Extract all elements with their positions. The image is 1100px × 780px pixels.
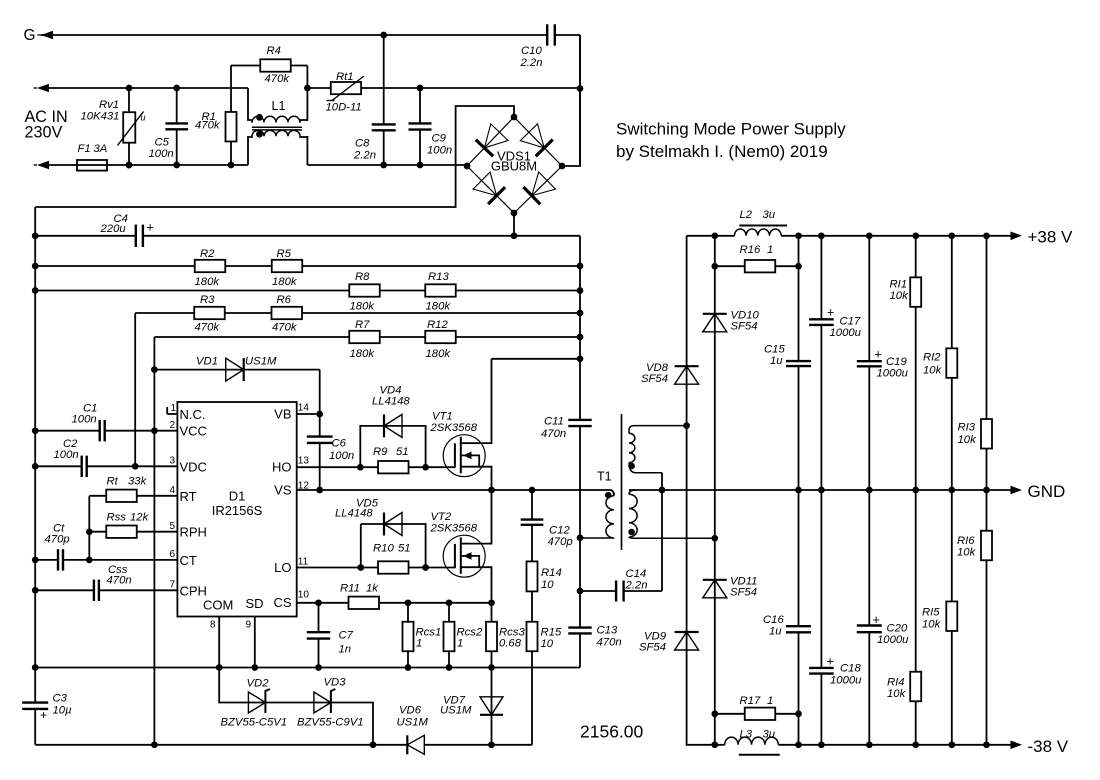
wire VCC line [35,430,100,432]
wire -38 rail [715,744,725,746]
svg-text:1k: 1k [366,583,379,595]
wire VS-GND line [320,489,610,491]
T1 secondary upper [629,426,687,434]
svg-text:Rv1: Rv1 [99,99,119,111]
svg-text:C5: C5 [155,137,170,149]
resistor RI5 [946,601,957,631]
capacitor C12 wire [531,490,533,562]
svg-text:1u: 1u [770,355,783,367]
svg-text:C20: C20 [887,623,908,635]
node COM pin9 [251,664,258,671]
svg-text:RI5: RI5 [922,607,940,619]
svg-text:51: 51 [398,543,411,555]
node Rv1 bottom [126,162,133,169]
svg-text:470n: 470n [107,575,132,587]
svg-text:5: 5 [170,521,176,532]
svg-text:10k: 10k [957,547,977,559]
diode VD11 SF54 [703,580,727,598]
svg-text:C14: C14 [626,568,647,580]
node CS C7 [315,599,322,606]
svg-text:US1M: US1M [397,717,429,729]
node C8 top [380,32,387,39]
node R16 left [711,263,718,270]
svg-text:R17: R17 [740,695,761,707]
svg-text:R14: R14 [541,567,562,579]
svg-text:VT1: VT1 [432,411,453,423]
node left rail VDC [32,463,39,470]
T1 primary winding [606,496,614,538]
diode VD6 US1M [407,735,424,754]
svg-text:8: 8 [210,620,216,631]
node left rail C4 [32,232,39,239]
phase dot L1 bottom [256,131,263,138]
diode VD8 SF54 [675,366,699,384]
svg-text:10µ: 10µ [53,705,73,717]
svg-text:470p: 470p [548,536,573,548]
wire COM line [35,667,580,669]
node GND rail [983,487,990,494]
svg-text:LL4148: LL4148 [335,508,373,520]
svg-text:470n: 470n [597,637,622,649]
capacitor C3 [22,701,48,703]
wire R14-R15 [531,591,533,621]
svg-text:SF54: SF54 [639,642,666,654]
resistor RI3 [981,419,992,449]
wire VT1 drain line [492,358,581,360]
capacitor C13 [568,626,591,628]
diode VD4 LL4148 [384,414,402,437]
wire RI2-RI5 column [951,236,953,745]
svg-text:2.2n: 2.2n [625,580,648,592]
svg-text:SF54: SF54 [731,321,758,333]
svg-text:33k: 33k [128,476,148,488]
wire bridge bottom [513,213,515,236]
svg-text:10k: 10k [887,688,907,700]
node COM Rcs2 [446,664,453,671]
node +38 rail [866,232,873,239]
node VS C6 [316,487,323,494]
svg-text:C11: C11 [544,416,564,428]
svg-text:GBU8M: GBU8M [491,159,537,174]
terminal arrow GND [1011,486,1023,495]
svg-text:3A: 3A [94,143,108,155]
svg-text:12: 12 [298,481,310,492]
resistor Rcs1 [407,603,409,668]
svg-text:R10: R10 [373,543,394,555]
node left rail VCC [32,427,39,434]
svg-text:2SK3568: 2SK3568 [430,422,478,434]
svg-text:11: 11 [298,557,309,568]
wire C14 line [580,590,616,592]
node left rail CT [32,557,39,564]
capacitor C10 [546,24,548,45]
svg-text:1: 1 [767,695,773,707]
node bridge left [464,163,471,170]
svg-text:C17: C17 [840,316,861,328]
svg-text:220u: 220u [100,223,127,235]
svg-text:VD3: VD3 [324,677,347,689]
svg-text:G: G [24,27,36,44]
svg-text:R12: R12 [427,319,448,331]
node -38 rail [983,741,990,748]
capacitor C1 [98,420,100,441]
svg-text:3u: 3u [763,209,776,221]
resistor R3 [194,307,225,319]
varistor Rv1 [128,88,130,112]
svg-text:0.68: 0.68 [499,638,522,650]
node VCC junction [151,427,158,434]
wire RT line [89,495,177,497]
svg-text:51: 51 [396,446,409,458]
node left rail R2 line [32,263,39,270]
svg-text:R5: R5 [277,248,292,260]
svg-text:1: 1 [416,638,422,650]
svg-text:VDC: VDC [180,459,207,474]
svg-text:180k: 180k [350,348,376,360]
resistor R7 [349,331,380,343]
wire VD7 vertical [491,668,493,745]
bridge diode top-right [520,124,544,148]
svg-text:RT: RT [180,489,197,504]
wire CPH line [35,589,94,591]
svg-text:2: 2 [170,420,176,431]
svg-text:470k: 470k [265,73,291,85]
capacitor C16 [786,625,811,627]
resistor R17 [715,713,745,715]
inductor L2 [734,229,781,236]
node R17 right [795,710,802,717]
transistor VT1 2SK3568 [443,435,485,477]
diode VD5 LL4148 [384,513,402,536]
svg-text:1000u: 1000u [877,368,909,380]
svg-text:BZV55-C5V1: BZV55-C5V1 [221,717,288,729]
svg-text:SF54: SF54 [641,373,668,385]
svg-text:IR2156S: IR2156S [212,503,263,518]
wire R8 line [35,290,580,292]
node COM Rcs1 [405,664,412,671]
wire VD4 loop [360,426,425,467]
node C4 bridge [511,232,518,239]
bridge diode bottom-left [473,172,497,196]
node VDC junction [132,463,139,470]
node bus C14 [577,588,584,595]
svg-text:VT2: VT2 [431,511,452,523]
svg-text:1: 1 [171,403,177,414]
node R10 right [422,564,429,571]
svg-text:10D-11: 10D-11 [326,102,362,114]
node C8 bottom [380,162,387,169]
core L1 [252,126,302,128]
node bus R7 [577,334,584,341]
svg-text:R11: R11 [340,583,360,595]
node bus R2 [577,263,584,270]
wire R3 line [135,312,580,314]
svg-text:R16: R16 [740,244,761,256]
node -38 rail [948,741,955,748]
svg-text:Rt: Rt [107,476,119,488]
svg-text:VD1: VD1 [196,356,218,368]
svg-text:LO: LO [274,560,291,575]
svg-text:2.2n: 2.2n [520,57,543,69]
svg-text:1000u: 1000u [830,327,862,339]
svg-text:+: + [827,306,834,320]
node R9 right [422,464,429,471]
svg-text:Rt1: Rt1 [336,71,354,83]
svg-text:10: 10 [298,590,310,601]
capacitor C8 [383,35,385,124]
diode VD7 US1M [480,697,503,715]
pin 9 SD [254,617,256,668]
node GND rail [912,487,919,494]
svg-text:+: + [873,613,880,627]
wire VD8-VD9 line [687,236,715,745]
wire +38 rail [687,235,735,237]
svg-text:GND: GND [1028,482,1066,501]
node bottom rail VCC vert [151,741,158,748]
node bridge top [511,114,518,121]
node CS VT2 [488,599,495,606]
terminal arrow +38V [1011,232,1023,241]
svg-text:N.C.: N.C. [180,407,206,422]
svg-text:13: 13 [298,456,310,467]
svg-text:2SK3568: 2SK3568 [430,523,478,535]
capacitor C9 [419,88,421,123]
svg-text:10k: 10k [890,290,910,302]
svg-text:100n: 100n [329,450,354,462]
wire RI3-RI6 column [986,236,988,745]
node C9 bottom [417,162,424,169]
svg-text:u: u [141,113,146,123]
wire VD2 line [219,668,373,745]
svg-text:100n: 100n [427,145,452,157]
svg-text:470k: 470k [195,120,221,132]
pin 10 CS [297,602,319,604]
svg-text:VB: VB [274,406,291,421]
diode VD10 SF54 [703,314,727,332]
node VD8 sec top [683,422,690,429]
wire lower AC line [49,164,77,166]
svg-text:D1: D1 [229,489,246,504]
resistor R4 [231,65,260,67]
wire R4 left drop [230,66,232,112]
node VB junction [316,411,323,418]
svg-text:C16: C16 [763,614,784,626]
node +38 rail [948,232,955,239]
svg-text:7: 7 [170,580,176,591]
wire GND line right [629,489,1012,491]
resistor R9 [378,461,409,473]
node bus R8 [577,287,584,294]
resistor R5 [272,260,303,272]
svg-text:R9: R9 [373,446,388,458]
node COM pin8 [216,664,223,671]
svg-text:C12: C12 [549,525,570,537]
svg-text:-38 V: -38 V [1028,737,1069,756]
terminal arrow AC lower [37,161,49,170]
node bus VT1 drain [577,355,584,362]
svg-text:C6: C6 [332,438,347,450]
node GND rail [948,487,955,494]
node Rv1 top [126,85,133,92]
node -38 rail [912,741,919,748]
svg-text:4: 4 [170,485,176,496]
node -38 rail [795,741,802,748]
capacitor Css [93,580,95,601]
svg-text:100n: 100n [54,449,79,461]
svg-text:C9: C9 [432,133,447,145]
svg-text:Rss: Rss [107,512,127,524]
svg-text:C8: C8 [355,138,370,150]
phase dot T1 sec lower [628,529,635,536]
svg-text:10k: 10k [922,619,942,631]
node CT junction [86,557,93,564]
svg-text:1n: 1n [339,644,352,656]
node GND rail [818,487,825,494]
wire bridge right to AC [562,35,580,166]
node bottom rail VD3 [370,741,377,748]
resistor Rt [106,490,137,502]
pin 12 VS [297,489,320,491]
wire RI1-RI4 column [915,236,917,745]
pin 8 COM [218,617,220,668]
svg-text:RI4: RI4 [887,677,905,689]
svg-text:180k: 180k [426,301,452,313]
svg-text:VD6: VD6 [399,705,422,717]
svg-text:CT: CT [180,553,197,568]
node COM Rcs3 [488,664,495,671]
capacitor C15 [786,360,811,362]
node GND rail [795,487,802,494]
svg-text:RI6: RI6 [957,535,975,547]
pin 11 LO [297,567,361,569]
svg-text:+: + [40,708,47,722]
svg-text:10K431: 10K431 [81,111,120,123]
terminal arrow -38V [1011,741,1023,750]
diode VD1 US1M [226,358,244,381]
wire VD1 line [154,369,319,371]
resistor R14 [527,561,538,591]
resistor R8 [349,284,380,296]
svg-text:SD: SD [246,596,264,611]
resistor R15 [527,622,538,652]
svg-text:VS: VS [274,483,292,498]
node VS C12 [529,487,536,494]
node left rail COM [32,664,39,671]
svg-text:R13: R13 [428,271,449,283]
svg-text:SF54: SF54 [730,587,757,599]
node T1 sec mid [659,487,666,494]
bridge VDS1 outline [467,117,562,213]
svg-text:470k: 470k [195,322,221,334]
node -38 rail [818,741,825,748]
wire bridge top to left rail [35,106,514,207]
svg-text:10k: 10k [958,434,978,446]
svg-text:+: + [827,655,834,669]
svg-text:US1M: US1M [440,705,472,717]
wire C4 line [35,235,136,237]
svg-text:C10: C10 [521,45,542,57]
svg-text:R7: R7 [355,319,370,331]
node +38 rail [912,232,919,239]
svg-text:180k: 180k [272,276,298,288]
node bridge bottom [511,210,518,217]
svg-text:470p: 470p [45,534,70,546]
node C9 top [417,85,424,92]
resistor R6 [272,307,303,319]
capacitor C20 [857,624,882,626]
svg-text:+: + [875,348,882,362]
node CS Rcs2 [446,599,453,606]
svg-text:C7: C7 [339,630,354,642]
resistor RI6 [981,531,992,561]
pin 14 VB [297,413,320,415]
node R16 right [795,263,802,270]
capacitor C19 [857,360,882,362]
svg-text:R6: R6 [277,294,292,306]
wire C15-C16 column [798,236,800,745]
T1 secondary lower [629,490,636,494]
wire VD10-VD11 line [714,236,716,745]
inductor L1 bottom winding [248,136,252,165]
wire LO to gate [361,567,455,569]
resistor R16 [715,265,746,267]
svg-text:by Stelmakh I. (Nem0) 2019: by Stelmakh I. (Nem0) 2019 [616,142,828,161]
svg-text:LL4148: LL4148 [372,396,410,408]
svg-text:C18: C18 [840,663,861,675]
svg-text:180k: 180k [195,276,221,288]
node sec lower bottom [711,535,718,542]
svg-text:6: 6 [170,549,176,560]
resistor R10 [378,561,409,573]
wire upper AC line [49,87,248,89]
svg-text:100n: 100n [72,414,97,426]
svg-text:C15: C15 [764,344,785,356]
svg-text:RI1: RI1 [890,279,908,291]
resistor R11 [349,597,380,609]
svg-text:180k: 180k [350,301,376,313]
wire DC bus [579,236,581,668]
svg-text:BZV55-C9V1: BZV55-C9V1 [297,717,364,729]
node +38 rail [795,232,802,239]
capacitor C2 [80,456,82,477]
node bus R3 [577,310,584,317]
svg-text:C19: C19 [886,356,907,368]
wire C14 to sec mid [661,473,663,591]
svg-text:2156.00: 2156.00 [580,722,644,742]
node L1/R4 right [304,85,311,92]
resistor RI4 [910,672,921,702]
node bottom rail VD7 [488,741,495,748]
node R9 left [357,464,364,471]
wire R2 line [35,265,580,267]
node VD10 top [711,232,718,239]
phase dot T1 sec upper [628,463,635,470]
wire VD5 loop [361,524,426,568]
inductor L1 top winding [248,88,252,123]
svg-text:12k: 12k [130,512,150,524]
svg-text:1000u: 1000u [877,634,909,646]
wire CT line [35,559,58,561]
transistor VT2 2SK3568 [443,535,485,577]
capacitor C11 [568,419,591,421]
svg-text:1: 1 [767,244,773,256]
resistor Rss [106,526,137,538]
wire G line left segment [41,34,547,36]
svg-text:3u: 3u [763,729,776,741]
wire HO to gate [360,466,455,468]
node bridge AC right [577,85,584,92]
pin 13 HO [297,466,361,468]
